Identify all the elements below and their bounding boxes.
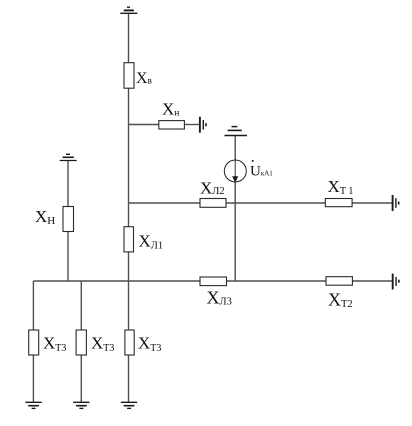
- svg-text:XТ2: XТ2: [328, 289, 353, 310]
- svg-text:XЛ1: XЛ1: [139, 232, 164, 252]
- svg-text:XТ 1: XТ 1: [328, 177, 354, 197]
- svg-text:XТ3: XТ3: [91, 333, 114, 354]
- svg-text:Xн: Xн: [162, 100, 179, 119]
- svg-text:XЛ3: XЛ3: [207, 287, 232, 307]
- svg-text:XЛ2: XЛ2: [200, 178, 225, 197]
- svg-text:XН: XН: [35, 207, 55, 227]
- svg-text:XТ3: XТ3: [138, 333, 161, 354]
- svg-text:UкА1: UкА1: [250, 163, 273, 179]
- svg-text:Xв: Xв: [136, 70, 152, 87]
- svg-text:XТ3: XТ3: [43, 333, 66, 354]
